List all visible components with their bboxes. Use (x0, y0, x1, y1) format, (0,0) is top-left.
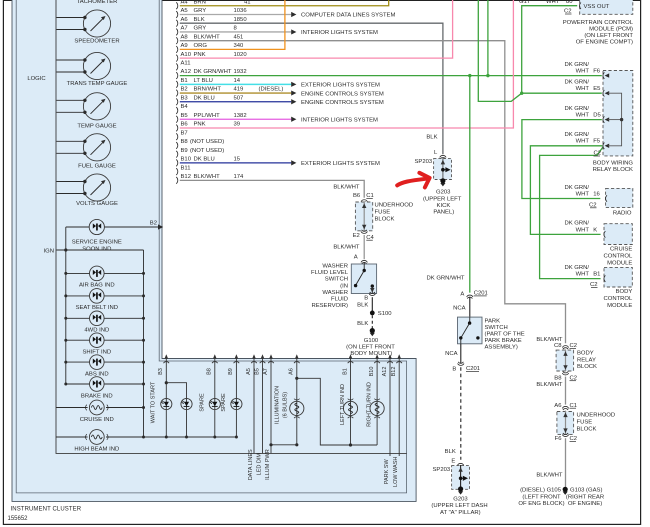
pin A7 on cluster edge (263, 354, 274, 375)
label UNDERHOOD FUSE BLOCK (upper) (375, 202, 414, 222)
svg-text:WHT: WHT (576, 139, 590, 145)
wire A6 BLK 1850 (180, 23, 443, 154)
svg-text:DK GRN/: DK GRN/ (564, 132, 589, 138)
svg-text:B8: B8 (207, 368, 213, 375)
pin B4 (176, 104, 188, 114)
svg-text:OF ENG BLOCK): OF ENG BLOCK) (518, 501, 564, 507)
svg-text:(NOT USED): (NOT USED) (190, 148, 224, 154)
pin A4 (176, 0, 250, 9)
ground G203 upper (440, 178, 445, 186)
svg-text:DK BLU: DK BLU (194, 157, 215, 163)
svg-text:G100: G100 (364, 338, 379, 344)
svg-text:MODULE: MODULE (607, 303, 632, 309)
wire F5 splice to BODY CONTROL MODULE (540, 147, 604, 279)
wire BLK dashed to SP203 lower (460, 367, 462, 460)
svg-text:BLK/WHT: BLK/WHT (536, 337, 563, 343)
svg-text:AIR BAG IND: AIR BAG IND (79, 283, 115, 289)
svg-text:CRUISE IND: CRUISE IND (80, 417, 114, 423)
gauge VOLTS GAUGE (57, 174, 118, 207)
svg-text:ENGINE CONTROLS SYSTEM: ENGINE CONTROLS SYSTEM (301, 91, 384, 97)
wire A4 BRN 41 (180, 0, 389, 6)
svg-text:B1: B1 (181, 78, 188, 84)
gauge FUEL GAUGE (57, 134, 116, 170)
svg-text:BLK/WHT: BLK/WHT (333, 245, 360, 251)
pin B3 (176, 95, 243, 105)
svg-text:COMPUTER DATA LINES SYSTEM: COMPUTER DATA LINES SYSTEM (301, 13, 395, 19)
svg-text:POWERTRAIN CONTROL: POWERTRAIN CONTROL (563, 20, 634, 26)
svg-text:BRN/WHT: BRN/WHT (194, 87, 222, 93)
indicator AIR BAG IND (64, 266, 145, 289)
svg-text:A6: A6 (181, 17, 189, 23)
svg-text:(RIGHT REAR: (RIGHT REAR (566, 494, 604, 500)
pin B8 on cluster edge (207, 354, 218, 375)
wire A12 stub PARK SW (384, 365, 390, 485)
pin arc relay block (603, 90, 609, 96)
wire B5 stub LED DIM (256, 365, 262, 476)
pin E2 / C4 (353, 230, 375, 241)
svg-text:(NOT USED): (NOT USED) (190, 139, 224, 145)
svg-text:BLK: BLK (194, 17, 205, 23)
pin B1 (176, 78, 241, 88)
indicator 4WD IND (64, 311, 145, 334)
label G100 (346, 338, 395, 357)
splice dot + arrow SP203 lower (459, 476, 468, 481)
svg-text:INTERIOR LIGHTS SYSTEM: INTERIOR LIGHTS SYSTEM (301, 117, 378, 123)
svg-text:B6: B6 (353, 193, 361, 199)
svg-text:INTERIOR LIGHTS SYSTEM: INTERIOR LIGHTS SYSTEM (301, 30, 378, 36)
svg-text:B5: B5 (181, 113, 189, 119)
wire left rail (65, 227, 67, 384)
svg-text:G17: G17 (519, 0, 530, 5)
svg-text:ILLUM PWR: ILLUM PWR (265, 449, 271, 480)
splice SP203 lower box (452, 466, 470, 490)
pin arc relay block (603, 116, 609, 122)
svg-text:LEFT TURN IND: LEFT TURN IND (340, 384, 346, 425)
svg-text:E5: E5 (593, 86, 601, 92)
pin F6 / C2 (555, 433, 577, 442)
led SPARE 1 (199, 393, 220, 412)
pin A6 (176, 17, 247, 27)
svg-text:INSTRUMENT CLUSTER: INSTRUMENT CLUSTER (11, 506, 82, 512)
pin B10 (176, 157, 241, 167)
svg-text:RELAY BLOCK: RELAY BLOCK (593, 167, 633, 173)
wire B6 PNK 39 (180, 0, 514, 128)
svg-text:EXTERIOR LIGHTS SYSTEM: EXTERIOR LIGHTS SYSTEM (301, 83, 380, 89)
svg-text:RADIO: RADIO (613, 210, 632, 216)
svg-text:WAIT TO START: WAIT TO START (150, 381, 156, 423)
pin A12 on cluster edge (382, 354, 393, 376)
svg-text:LT BLU: LT BLU (194, 78, 213, 84)
svg-text:TEMP GAUGE: TEMP GAUGE (77, 124, 116, 130)
led WAIT TO START 2 (181, 398, 192, 409)
svg-text:B12: B12 (181, 174, 191, 180)
wire B1 to LEFT TURN IND (349, 365, 352, 447)
pin VSS OUT (580, 3, 610, 11)
svg-text:PARK BRAKE: PARK BRAKE (485, 338, 522, 344)
pin B7 (176, 130, 188, 140)
pin A5 on cluster edge (246, 354, 257, 375)
svg-text:B10: B10 (369, 367, 375, 377)
svg-text:A5: A5 (246, 368, 252, 375)
wire B2 BRN/WHT 419 (DIESEL) (180, 87, 384, 98)
svg-text:A10: A10 (181, 52, 192, 58)
svg-text:WHT: WHT (576, 86, 590, 92)
svg-text:D5: D5 (593, 113, 601, 119)
svg-text:NCA: NCA (453, 305, 466, 311)
svg-text:B2: B2 (181, 87, 188, 93)
ground G105/G103 (563, 487, 568, 495)
svg-text:16: 16 (593, 191, 600, 197)
indicator ABS IND (64, 355, 145, 378)
svg-text:1036: 1036 (234, 8, 248, 14)
indicator HIGH BEAM IND (56, 430, 144, 453)
pin B12 (176, 174, 244, 184)
svg-text:507: 507 (234, 95, 244, 101)
svg-text:G103 (GAS): G103 (GAS) (570, 488, 602, 494)
wire park switch to C201-B (460, 344, 462, 364)
label G105 G103 (518, 488, 604, 507)
svg-text:39: 39 (234, 122, 241, 128)
svg-text:BLOCK: BLOCK (577, 427, 597, 433)
svg-text:FUEL GAUGE: FUEL GAUGE (78, 163, 116, 169)
svg-text:PARK SW: PARK SW (384, 459, 390, 485)
label G203 lower (431, 496, 487, 515)
svg-text:RELAY: RELAY (577, 357, 596, 363)
svg-text:BLK: BLK (357, 321, 368, 327)
wire A5 GRY 1036 (180, 12, 396, 19)
svg-text:A8: A8 (181, 34, 189, 40)
svg-text:DK GRN/: DK GRN/ (564, 80, 589, 86)
pin B6 (176, 122, 240, 132)
svg-text:B6: B6 (181, 122, 189, 128)
svg-text:B7: B7 (181, 130, 188, 136)
svg-text:A6: A6 (289, 368, 295, 375)
wire B1 LT BLU 14 (180, 82, 380, 89)
wire IGN feed (44, 248, 144, 254)
node E connector (451, 459, 463, 467)
wire DK GRN/WHT up to top at 487.9 (487, 0, 489, 76)
svg-text:BLK/WHT: BLK/WHT (536, 472, 563, 478)
svg-text:DK GRN/: DK GRN/ (564, 62, 589, 68)
pin A5 (176, 8, 247, 18)
gauge SPEEDOMETER (57, 10, 120, 45)
svg-text:(UPPER LEFT: (UPPER LEFT (423, 196, 462, 202)
instrument cluster inner box (16, 0, 406, 493)
svg-text:174: 174 (234, 174, 245, 180)
wire BLK to S100 (357, 297, 372, 312)
svg-text:MODULE: MODULE (607, 260, 632, 266)
svg-text:BLK/WHT: BLK/WHT (194, 34, 221, 40)
svg-text:PANEL): PANEL) (433, 210, 454, 216)
junction VSS/E5 (520, 92, 523, 95)
pin B8 (176, 139, 224, 149)
svg-text:B4: B4 (181, 104, 189, 110)
wire B3 to WAIT TO START leds (165, 365, 168, 438)
svg-text:WHT: WHT (546, 0, 560, 5)
svg-text:41: 41 (244, 0, 251, 5)
pin A10 (176, 52, 247, 62)
svg-text:PPL/WHT: PPL/WHT (194, 113, 221, 119)
wire A5 stub DATA LINES (248, 365, 254, 481)
svg-text:ASSEMBLY): ASSEMBLY) (485, 345, 518, 351)
svg-text:B11: B11 (181, 165, 191, 171)
component WASHER FLUID LEVEL SWITCH (351, 264, 376, 294)
pin B12 on cluster edge (391, 354, 402, 376)
pin A6 on cluster edge (289, 354, 300, 375)
svg-text:RIGHT TURN IND: RIGHT TURN IND (366, 382, 372, 427)
svg-text:SOON IND: SOON IND (82, 246, 111, 252)
svg-text:GRY: GRY (194, 8, 207, 14)
connector C201 pin B (452, 362, 480, 373)
svg-text:TACHOMETER: TACHOMETER (77, 0, 118, 5)
svg-text:DK GRN/WHT: DK GRN/WHT (427, 275, 465, 281)
svg-text:B9: B9 (228, 368, 234, 375)
svg-text:A5: A5 (181, 8, 189, 14)
svg-text:K: K (593, 227, 597, 233)
bulb ILLUMINATION (274, 386, 304, 424)
svg-text:ORG: ORG (194, 43, 208, 49)
pin B8 / C2 (554, 371, 577, 381)
junction A12 up branch (486, 74, 489, 77)
svg-text:CONTROL: CONTROL (603, 296, 633, 302)
svg-text:(ON LEFT FRONT: (ON LEFT FRONT (346, 345, 395, 351)
svg-text:B5: B5 (254, 368, 260, 375)
svg-text:BRAKE IND: BRAKE IND (81, 393, 113, 399)
indicator SEAT BELT IND (64, 289, 145, 312)
pin A6 / C1 (554, 403, 577, 410)
svg-text:BLK: BLK (445, 449, 456, 455)
svg-text:(6 BULBS): (6 BULBS) (282, 392, 288, 418)
svg-text:80: 80 (566, 0, 573, 5)
wire BLK/WHT to ground (536, 438, 565, 488)
svg-text:PNK: PNK (194, 52, 206, 58)
svg-text:1850: 1850 (234, 17, 248, 23)
svg-text:BRN: BRN (194, 0, 206, 5)
pin B washer switch (364, 292, 375, 302)
pin A8 (176, 34, 243, 44)
splice S100 (370, 311, 392, 318)
splice SP203 upper box (434, 159, 452, 180)
ground G203 lower (458, 486, 463, 494)
svg-text:(LEFT FRONT: (LEFT FRONT (522, 494, 561, 500)
wire F5 to CRUISE CONTROL MODULE (530, 146, 602, 235)
svg-text:BLOCK: BLOCK (375, 217, 395, 223)
svg-text:WASHER: WASHER (322, 264, 348, 270)
svg-text:DK GRN/: DK GRN/ (564, 185, 589, 191)
svg-text:CRUISE: CRUISE (610, 247, 632, 253)
ground G100 (370, 328, 375, 336)
svg-text:BLK: BLK (357, 302, 368, 308)
svg-text:(IN: (IN (340, 283, 348, 289)
wire A8 BLK/WHT 451 (180, 41, 566, 344)
pin B3 on cluster edge (158, 354, 169, 375)
pin A9 (176, 43, 244, 53)
wire illumination branch to turn lamp rail (297, 378, 377, 445)
label POWERTRAIN CONTROL MODULE (563, 20, 634, 45)
pin A7 (176, 26, 237, 36)
pin arc relay block (603, 72, 609, 78)
svg-text:(DIESEL): (DIESEL) (259, 87, 284, 93)
svg-text:MODULE (PCM): MODULE (PCM) (589, 27, 633, 33)
wire A6 to illumination bulb (295, 365, 298, 447)
svg-text:(PART OF THE: (PART OF THE (485, 332, 525, 338)
module PCM box (580, 0, 633, 14)
wire A12 DK GRN/WHT 1932 (180, 75, 602, 77)
pin A12 (176, 69, 246, 79)
label BODY RELAY BLOCK (577, 351, 597, 371)
label WASHER FLUID LEVEL SWITCH (311, 264, 349, 310)
svg-text:SERVICE ENGINE: SERVICE ENGINE (72, 240, 122, 246)
svg-text:SWITCH: SWITCH (485, 325, 508, 331)
label BODY WIRING RELAY BLOCK (593, 160, 634, 173)
gauge TEMP GAUGE (57, 93, 117, 130)
pin B6 / C1 (353, 193, 374, 203)
wire through fuse block (362, 202, 366, 232)
module CRUISE CONTROL MODULE (604, 224, 632, 245)
svg-text:451: 451 (234, 34, 244, 40)
svg-text:F6: F6 (593, 68, 601, 74)
svg-text:B3: B3 (158, 368, 164, 375)
svg-text:BODY WIRING: BODY WIRING (593, 160, 634, 166)
svg-text:FLUID LEVEL: FLUID LEVEL (311, 270, 349, 276)
wire B12 stub LOW WASH (393, 365, 399, 487)
svg-text:DK GRN/: DK GRN/ (564, 265, 589, 271)
svg-text:PNK: PNK (194, 122, 206, 128)
svg-text:UNDERHOOD: UNDERHOOD (375, 202, 414, 208)
wire illumination bottom tie to A7 (269, 443, 296, 446)
annotation red arrow (397, 179, 425, 186)
svg-text:WHT: WHT (576, 68, 590, 74)
svg-text:WHT: WHT (576, 191, 590, 197)
module UNDERHOOD FUSE BLOCK (upper) (355, 202, 372, 231)
pin A11 (176, 61, 190, 71)
svg-text:CONTROL: CONTROL (603, 254, 633, 260)
svg-text:IGN: IGN (44, 248, 54, 254)
svg-text:DK GRN/WHT: DK GRN/WHT (194, 69, 232, 75)
wire inside G203 upper (441, 157, 445, 181)
svg-text:SEAT BELT IND: SEAT BELT IND (76, 305, 118, 311)
wire BLK/WHT between blocks (536, 377, 565, 405)
svg-text:A12: A12 (181, 69, 191, 75)
wire BLK dashed to G100 (357, 315, 372, 329)
svg-text:DK GRN/: DK GRN/ (564, 221, 589, 227)
pin A washer switch (354, 255, 368, 264)
junction A12/C201 branch (468, 74, 471, 77)
svg-text:1020: 1020 (234, 52, 248, 58)
svg-text:A: A (460, 291, 464, 297)
svg-text:RESERVOIR): RESERVOIR) (311, 303, 348, 309)
module UNDERHOOD FUSE BLOCK (lower) (557, 412, 574, 435)
indicator CRUISE IND (56, 400, 145, 423)
svg-text:PARK: PARK (485, 318, 501, 324)
wire B10 to RIGHT TURN IND (376, 365, 378, 446)
svg-text:KICK: KICK (437, 203, 451, 209)
svg-text:(ON LEFT FRONT: (ON LEFT FRONT (584, 33, 633, 39)
connector C201 pin A (460, 291, 487, 299)
svg-text:155652: 155652 (8, 516, 29, 522)
svg-text:A: A (354, 255, 358, 261)
wire D5 to RADIO (522, 120, 602, 199)
svg-text:BLK/WHT: BLK/WHT (333, 184, 360, 190)
label PARK SWITCH (485, 318, 525, 350)
node B2 arrow exiting cluster (150, 220, 163, 229)
wire into park switch (469, 297, 471, 317)
led WAIT TO START 1 (150, 381, 172, 423)
svg-text:ILLUMINATION: ILLUMINATION (274, 386, 280, 424)
module BODY RELAY BLOCK (556, 350, 574, 371)
svg-text:ENGINE CONTROLS SYSTEM: ENGINE CONTROLS SYSTEM (301, 100, 384, 106)
wire A10 PNK 1020 (180, 0, 453, 58)
svg-text:B1: B1 (593, 272, 600, 278)
wire A7 GRY 8 (180, 29, 378, 36)
svg-text:DK GRN/: DK GRN/ (564, 106, 589, 112)
svg-text:GRY: GRY (194, 26, 207, 32)
pin arc relay block (603, 143, 609, 149)
svg-text:G203: G203 (453, 496, 468, 502)
pin B9 (176, 148, 224, 158)
wire branch to second led (166, 383, 186, 437)
pin B2 (176, 87, 243, 97)
wire B9 to SPARE led (235, 365, 237, 438)
wire internal bus E5-F5 (608, 93, 622, 146)
svg-text:B12: B12 (391, 367, 397, 377)
node L connector (434, 150, 446, 159)
svg-text:DK BLU: DK BLU (194, 95, 215, 101)
wire B10 DK BLU 15 (180, 160, 380, 167)
logic box (left edge + bottom edge) (56, 0, 407, 453)
svg-text:FUSE: FUSE (577, 419, 593, 425)
svg-text:SP203: SP203 (415, 159, 433, 165)
svg-text:1382: 1382 (234, 113, 247, 119)
svg-text:B8: B8 (554, 375, 562, 381)
svg-text:1932: 1932 (234, 69, 247, 75)
svg-text:F6: F6 (555, 436, 563, 442)
svg-text:A7: A7 (181, 26, 188, 32)
svg-text:F5: F5 (593, 139, 601, 145)
wire BLK/WHT fuse to washer switch (333, 235, 364, 259)
svg-text:G203: G203 (436, 189, 451, 195)
svg-text:BODY: BODY (577, 351, 594, 357)
svg-text:DATA LINES: DATA LINES (248, 449, 254, 480)
svg-text:SPEEDOMETER: SPEEDOMETER (74, 39, 119, 45)
svg-text:C8: C8 (554, 343, 562, 349)
svg-text:BLK/WHT: BLK/WHT (536, 382, 563, 388)
svg-text:LOW WASH: LOW WASH (393, 457, 399, 487)
svg-text:AT "A" PILLAR): AT "A" PILLAR) (440, 510, 481, 516)
svg-text:SP203: SP203 (433, 467, 451, 473)
indicator SERVICE ENGINE SOON IND (66, 219, 159, 252)
pin B10 on cluster edge (369, 354, 380, 376)
svg-text:A12: A12 (382, 367, 388, 377)
svg-text:B: B (452, 366, 456, 372)
wire B12 BLK/WHT 174 (180, 180, 364, 197)
pin B5 on cluster edge (254, 354, 265, 375)
label wire WHT 80 (519, 0, 573, 5)
component PARK SWITCH (458, 317, 483, 344)
svg-text:(UPPER LEFT DASH: (UPPER LEFT DASH (431, 503, 487, 509)
svg-text:B3: B3 (181, 95, 189, 101)
module BODY WIRING RELAY BLOCK (603, 71, 633, 156)
svg-text:419: 419 (234, 87, 244, 93)
instrument cluster outer box (12, 0, 416, 501)
svg-text:LED DIM: LED DIM (256, 453, 262, 476)
module RADIO (606, 188, 633, 216)
pin B9 on cluster edge (228, 354, 239, 375)
svg-text:WHT: WHT (576, 272, 590, 278)
svg-text:B2: B2 (150, 220, 157, 226)
pin B1 on cluster edge (342, 354, 353, 375)
svg-text:FUSE: FUSE (375, 209, 391, 215)
